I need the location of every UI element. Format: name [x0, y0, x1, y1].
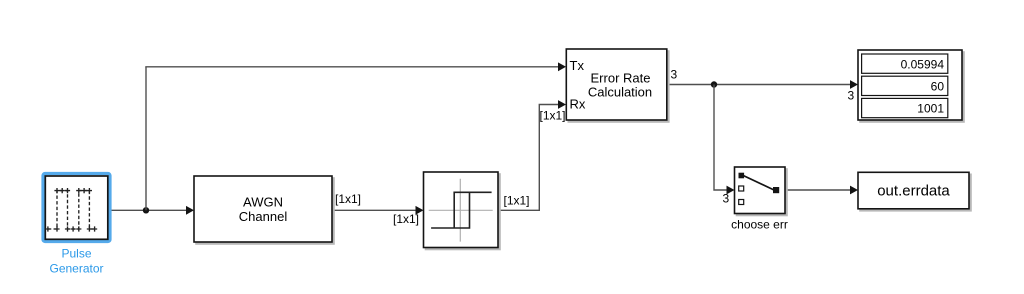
svg-text:[1x1]: [1x1] — [504, 193, 530, 207]
svg-text:out.errdata: out.errdata — [877, 183, 950, 200]
label: signal dimension [1x1] before Relay input — [393, 212, 419, 226]
svg-text:[1x1]: [1x1] — [335, 192, 361, 206]
display row 1 value 0.05994 — [862, 54, 948, 73]
wire: Error Rate Calculation output to Display input — [667, 80, 858, 89]
svg-text:Channel: Channel — [239, 209, 288, 224]
svg-text:Pulse: Pulse — [61, 247, 91, 261]
wire: Relay output up to Error Rate Calculation Rx input — [498, 100, 566, 210]
block: choose err (Selector) — [735, 167, 786, 214]
wire: AWGN Channel output to Relay input — [332, 206, 424, 215]
block: Pulse Generator (selected, blue frame) — [43, 174, 110, 242]
svg-text:60: 60 — [931, 79, 945, 93]
label: choose err block name — [731, 218, 788, 232]
svg-text:AWGN: AWGN — [243, 195, 283, 210]
svg-text:[1x1]: [1x1] — [540, 109, 566, 123]
wire: branch up from junction to Tx feed line — [145, 67, 147, 211]
node: branch junction on Error Rate output — [711, 81, 717, 87]
svg-text:3: 3 — [671, 68, 678, 82]
block: out.errdata (To Workspace) — [858, 172, 969, 209]
display row 2 value 60 — [862, 76, 948, 95]
display row 3 value 1001 — [862, 98, 948, 117]
block: Display (outer frame) — [858, 50, 962, 120]
node: branch junction on Pulse Generator output — [143, 207, 149, 213]
wire: Pulse Generator output to AWGN Channel input — [111, 206, 194, 215]
label: signal width 3 before Display — [848, 89, 855, 103]
label: Pulse Generator block name — [49, 247, 103, 276]
block: Relay — [424, 172, 499, 248]
label: signal dimension [1x1] after Relay output — [504, 193, 530, 207]
icon: selector squares and link line — [739, 173, 780, 205]
svg-text:3: 3 — [848, 89, 855, 103]
svg-text:Calculation: Calculation — [588, 85, 652, 100]
label: signal dimension [1x1] after AWGN Channel — [335, 192, 361, 206]
icon: discrete pulse waveform inside Pulse Generator — [45, 188, 97, 232]
svg-text:Generator: Generator — [49, 262, 103, 276]
svg-text:0.05994: 0.05994 — [901, 57, 945, 71]
svg-text:1001: 1001 — [917, 102, 944, 116]
label: signal dimension [1x1] at Rx corner — [540, 109, 566, 123]
block: AWGN Channel — [194, 176, 332, 242]
icon: relay hysteresis curve — [431, 192, 492, 228]
svg-text:choose err: choose err — [731, 218, 788, 232]
svg-text:[1x1]: [1x1] — [393, 212, 419, 226]
wire: top line to Error Rate Calculation Tx input — [145, 62, 566, 71]
svg-text:Rx: Rx — [570, 97, 586, 112]
block: Error Rate Calculation — [566, 49, 667, 120]
svg-text:Error Rate: Error Rate — [591, 71, 651, 86]
svg-text:Tx: Tx — [570, 58, 585, 73]
svg-text:3: 3 — [723, 192, 730, 206]
icon: relay hysteresis axes (gray) — [429, 179, 493, 242]
label: signal width 3 after Error Rate Calculation — [671, 68, 678, 82]
wire: branch down from junction to choose err input — [714, 85, 735, 195]
wire: choose err output to out.errdata input — [785, 186, 858, 195]
label: signal width 3 before choose err — [723, 192, 730, 206]
